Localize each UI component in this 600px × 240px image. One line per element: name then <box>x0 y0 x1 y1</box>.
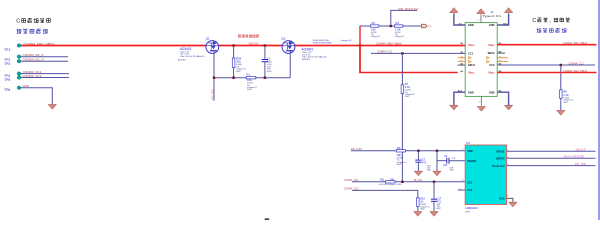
pin B5 CC2 wire <box>497 64 595 66</box>
capacitor C4 horizontal to PDLDO <box>437 160 446 162</box>
svg-text:R3: R3 <box>396 21 400 25</box>
svg-text:CONN4_CC2: CONN4_CC2 <box>344 187 359 191</box>
resistor R11 horizontal <box>386 181 396 183</box>
IC U3 body <box>465 145 506 205</box>
svg-text:10n: 10n <box>267 60 272 64</box>
pad TP3 teal dot <box>17 59 21 63</box>
ground top left <box>450 8 458 13</box>
ground symbol left <box>48 105 56 110</box>
pin B8 stub <box>497 52 505 54</box>
svg-text:GND: GND <box>468 23 474 27</box>
annotation: anti-reverse power block (red hanzi) <box>238 34 259 37</box>
title right: C female socket connector (black) <box>532 18 569 24</box>
svg-text:CONN4_D2_P: CONN4_D2_P <box>23 53 44 57</box>
junction rail at C4 branch <box>436 150 438 152</box>
svg-text:VDD: VDD <box>467 149 473 153</box>
connector inside orange direction glyphs <box>469 57 490 63</box>
svg-text:CONN4_VBU_VBUS: CONN4_VBU_VBUS <box>563 69 587 73</box>
port arrow PD <box>421 24 427 28</box>
svg-text:DFN: DFN <box>465 211 470 213</box>
svg-text:10K: 10K <box>397 153 402 157</box>
shield pin top <box>480 14 482 22</box>
svg-text:Vds: 30.5V ID:4A=0.5: Vds: 30.5V ID:4A=0.5 <box>180 55 205 58</box>
svg-text:CC2: CC2 <box>489 63 495 67</box>
main VBUS red wire <box>21 45 466 47</box>
svg-text:CONN4_CC1: CONN4_CC1 <box>344 178 359 182</box>
wire CC1 to connector <box>371 52 458 54</box>
pin A5 stub <box>458 52 466 54</box>
pin B4 red wire <box>497 72 596 74</box>
svg-text:SBU1: SBU1 <box>468 63 475 67</box>
svg-text:CONN4_D2_N: CONN4_D2_N <box>23 58 44 62</box>
svg-text:RST_PDB: RST_PDB <box>575 163 586 166</box>
svg-text:CC1: CC1 <box>468 51 474 55</box>
ground C17 <box>430 212 438 217</box>
svg-text:±50ppm/°C: ±50ppm/°C <box>395 36 405 38</box>
svg-text:10K: 10K <box>371 27 376 31</box>
ground bottom left <box>450 105 458 110</box>
svg-text:AO3401: AO3401 <box>178 58 187 61</box>
pin A12 wire <box>454 92 465 105</box>
svg-text:CC1: CC1 <box>467 180 473 184</box>
wire CC1 to U3 <box>352 181 465 183</box>
svg-text:VBUS9: VBUS9 <box>575 149 586 152</box>
transistor Q1 <box>206 41 219 54</box>
svg-text:CONN4_CC2: CONN4_CC2 <box>569 61 584 65</box>
svg-text:±5%,1/16W ±200ppm/°C 0402: ±5%,1/16W ±200ppm/°C 0402 <box>379 184 402 186</box>
svg-text:TP6: TP6 <box>4 88 10 92</box>
svg-text:101: 101 <box>443 163 448 167</box>
ground bottom middle <box>477 107 485 112</box>
svg-text:PDLDO: PDLDO <box>467 159 476 163</box>
svg-text:PD_EN: PD_EN <box>211 89 214 99</box>
wire red vertical at divider x360 <box>359 26 361 73</box>
junction rail at C7 <box>417 150 419 152</box>
svg-text:0402: 0402 <box>437 208 441 210</box>
svg-text:C: C <box>16 19 20 25</box>
svg-text:Q1: Q1 <box>206 37 210 41</box>
resistor R1 horizontal in gate line <box>246 77 256 79</box>
page footer mark <box>265 218 270 220</box>
capacitor C7 <box>417 151 419 160</box>
ground top middle <box>477 9 485 14</box>
wire CC1 stub left <box>21 73 70 75</box>
connector J1 body <box>465 23 497 97</box>
svg-text:VBUS-C/VBUS-DET: VBUS-C/VBUS-DET <box>564 156 586 159</box>
wire red VBUS to A9 <box>360 46 458 73</box>
svg-text:VD2 5.0V: VD2 5.0V <box>248 42 258 46</box>
svg-text:PD_3.3V: PD_3.3V <box>351 147 362 151</box>
pin B6 stub orange <box>497 61 508 63</box>
ground C4 branch <box>433 171 441 176</box>
svg-text:VBUS1: VBUS1 <box>496 149 505 153</box>
pin B7 stub orange <box>497 57 508 59</box>
ground bottom right <box>504 105 512 110</box>
resistor R10 <box>417 198 420 207</box>
svg-text:R1: R1 <box>247 73 251 77</box>
svg-text:PD_EN(3.3V): PD_EN(3.3V) <box>399 7 419 11</box>
svg-text:Type-C 3.1: Type-C 3.1 <box>483 14 502 18</box>
svg-text:R2: R2 <box>372 21 376 25</box>
junction gate line at Q1 <box>213 77 215 79</box>
svg-text:DE_CC1: DE_CC1 <box>414 178 423 182</box>
transistor Q2 <box>282 41 295 54</box>
svg-text:GND: GND <box>23 84 29 88</box>
svg-text:CC2: CC2 <box>467 188 473 192</box>
pin B12 wire <box>497 13 508 25</box>
capacitor C17 <box>433 182 435 199</box>
junction gate line at C1 <box>264 77 266 79</box>
svg-text:0402: 0402 <box>450 169 454 171</box>
Q1 parameter text <box>178 51 205 62</box>
svg-text:AO3401: AO3401 <box>302 47 314 51</box>
wire CC2 stub left <box>21 77 70 79</box>
pad TP6 teal dot <box>17 86 21 90</box>
junction divider node <box>390 25 392 27</box>
svg-text:Vbus: Vbus <box>468 43 475 47</box>
svg-text:10K: 10K <box>236 60 241 64</box>
pin A7 stub orange <box>458 61 466 63</box>
pin 5 VSS wire <box>507 198 513 202</box>
pin A6 stub orange <box>458 57 466 59</box>
pad TP4 teal dot <box>17 72 21 76</box>
svg-text:TP3: TP3 <box>4 62 10 66</box>
wire Q1 gate drop <box>213 53 215 100</box>
title right: connect adapter (blue) <box>537 28 567 33</box>
resistor R2 horizontal <box>370 25 379 27</box>
svg-text:Q2: Q2 <box>281 37 285 41</box>
pin 2 VBUS1 wire <box>507 150 596 152</box>
svg-text:Vbus: Vbus <box>488 71 495 75</box>
svg-text:CONN4_VBU_VBUS: CONN4_VBU_VBUS <box>563 41 587 45</box>
svg-text:Vbus: Vbus <box>468 71 475 75</box>
svg-text:CONN4_CC2: CONN4_CC2 <box>23 74 42 78</box>
svg-text:Category 5E: Category 5E <box>340 39 352 42</box>
connector inside pin names <box>468 23 495 94</box>
wire GND left <box>21 88 53 105</box>
svg-text:TP1: TP1 <box>4 48 10 52</box>
svg-text:CONN4_VBU_VBUS: CONN4_VBU_VBUS <box>376 42 402 46</box>
svg-text:100: 100 <box>390 178 395 182</box>
svg-text:10K: 10K <box>247 78 252 82</box>
pin 1 CC2 stub <box>458 189 466 191</box>
wire CC2 bottom <box>352 190 418 211</box>
svg-text:,: , <box>549 18 550 24</box>
svg-text:GND: GND <box>489 90 495 94</box>
svg-text:Vbus: Vbus <box>488 43 495 47</box>
junction gate line at R04 <box>232 77 234 79</box>
svg-text:VDETB: VDETB <box>496 156 505 160</box>
sheet right border <box>598 0 600 220</box>
svg-text:TP5: TP5 <box>4 78 10 82</box>
junction VBUS at divider <box>359 44 361 46</box>
svg-text:Vds: 30.5V ID:4A=0.5: Vds: 30.5V ID:4A=0.5 <box>302 55 327 58</box>
svg-text:5.1K: 5.1K <box>405 85 411 89</box>
svg-text:±50ppm/°C: ±50ppm/°C <box>371 36 381 38</box>
svg-text:C4: C4 <box>444 154 448 158</box>
svg-text:AO3401: AO3401 <box>302 58 311 61</box>
resistor R8 <box>560 90 563 99</box>
svg-text:AO3401: AO3401 <box>180 47 192 51</box>
junction CC2 tap <box>560 64 562 66</box>
pin B9 red wire <box>497 44 596 46</box>
wire C4 branch vertical <box>436 151 438 171</box>
pad TP1 teal dot <box>17 44 21 48</box>
svg-text:GND: GND <box>489 23 495 27</box>
junction on VBUS at C1 <box>264 44 266 46</box>
title: connect host side (blue) <box>16 29 47 34</box>
svg-text:1K: 1K <box>420 200 423 204</box>
svg-text:VSS: VSS <box>499 197 504 201</box>
svg-text:PD: PD <box>428 26 431 28</box>
gate wire between Q1 and Q2 <box>214 77 290 79</box>
capacitor C1 vertical <box>264 46 266 59</box>
svg-text:R11: R11 <box>380 178 385 182</box>
ground R10 <box>414 212 422 217</box>
junction CC1 tap <box>401 52 403 54</box>
pin 3 Reset wire <box>507 165 596 167</box>
junction CC1 at C17 <box>433 181 435 183</box>
Q2 parameter text <box>302 51 327 61</box>
svg-text:CONN4_VBU_VBUS: CONN4_VBU_VBUS <box>24 42 55 46</box>
svg-text:LDR6013: LDR6013 <box>465 206 478 210</box>
svg-text:15V/3A 20V/3A E-MARK: 15V/3A 20V/3A E-MARK <box>313 41 333 44</box>
resistor R3 horizontal <box>394 25 403 27</box>
resistor R7 on vertical <box>401 85 404 94</box>
svg-text:0402: 0402 <box>427 170 431 172</box>
ground R8 <box>557 110 565 115</box>
svg-text:471: 471 <box>437 200 442 204</box>
pad TP5 teal dot <box>17 76 21 80</box>
shield pin bottom <box>480 96 482 106</box>
svg-text:R6: R6 <box>397 146 401 150</box>
pin A1 wire <box>454 13 465 25</box>
ground top right <box>504 8 512 13</box>
junction on VBUS at R04 <box>232 44 234 46</box>
wire Q2 gate drop <box>289 53 291 77</box>
svg-text:471: 471 <box>422 161 427 165</box>
U3 inside pin names <box>467 149 505 201</box>
ground VSS <box>509 202 517 207</box>
wire PD_EN tap <box>391 10 417 26</box>
ground C7 <box>414 171 422 176</box>
pin A8 stub <box>458 64 466 66</box>
pin 4 VDETB wire <box>507 157 596 159</box>
resistor R04 vertical <box>233 46 235 77</box>
wire CC2 to R8 <box>560 65 562 110</box>
junction CC1 at vertical <box>401 181 403 183</box>
svg-text:U3: U3 <box>466 141 470 145</box>
svg-text:1.5K: 1.5K <box>395 27 401 31</box>
svg-text:SBU2: SBU2 <box>488 51 495 55</box>
wire D2_N <box>21 60 69 62</box>
title: C male cable pad (black) <box>16 18 50 25</box>
wire CC1 vertical to bottom section <box>401 53 403 181</box>
svg-text:1.1K: 1.1K <box>563 93 569 97</box>
wire divider horizontal <box>360 25 421 27</box>
pin B1 wire <box>497 92 508 105</box>
resistor R6 horizontal <box>396 150 405 152</box>
wire 3.3V rail to U3 VDD <box>351 150 465 152</box>
svg-text:Reset Out: Reset Out <box>492 164 504 168</box>
pad TP2 teal dot <box>17 55 21 59</box>
svg-text:C: C <box>532 18 536 24</box>
wire D2_P <box>21 56 69 58</box>
svg-text:CONN4_CC1: CONN4_CC1 <box>377 50 392 54</box>
svg-text:GND: GND <box>468 90 474 94</box>
